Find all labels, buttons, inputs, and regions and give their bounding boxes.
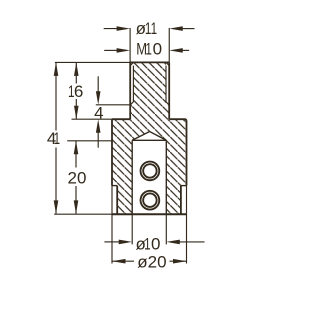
dimension M10 line right <box>179 49 189 51</box>
svg-text:4: 4 <box>94 104 103 123</box>
body left side <box>111 119 113 185</box>
dimension 16 line upper <box>75 62 77 83</box>
extension line: body top (16/4 bottom) <box>72 118 113 120</box>
dimension M10 arrow right <box>169 48 183 53</box>
spigot right side <box>180 186 182 215</box>
dimension text 16 <box>68 82 83 101</box>
extension line: body right vertical <box>186 186 188 264</box>
extension line: bottom <box>54 213 112 215</box>
dimension text ø10 <box>136 235 161 254</box>
section hatch: threaded stud core M10 <box>133 62 166 104</box>
dimension ø11 arrow right <box>169 26 183 31</box>
dimension 20 line upper <box>75 141 77 168</box>
dimension ø11 line left <box>104 28 120 30</box>
dimension 16 arrow up <box>74 62 79 76</box>
part outline: stud top face <box>130 61 169 63</box>
body top face left <box>112 118 130 120</box>
extension line: thread end shoulder <box>96 104 130 106</box>
svg-text:1: 1 <box>54 129 61 148</box>
dimension 20 line lower <box>75 186 77 214</box>
bore right edge <box>165 140 167 214</box>
extension line: stud right vertical <box>168 28 170 62</box>
dimension ø10 arrow right <box>166 240 180 245</box>
spigot left side <box>116 186 118 215</box>
body top face right with corner round <box>169 119 186 121</box>
dimension text ø11 <box>136 19 158 38</box>
svg-text:1: 1 <box>145 40 152 59</box>
thread minor line right <box>166 66 169 105</box>
step left <box>112 185 117 187</box>
dimension ø11 arrow left <box>117 26 131 31</box>
svg-text:20: 20 <box>68 169 87 188</box>
screw hole upper outer <box>141 162 160 181</box>
dimension 16 arrow down <box>74 106 79 120</box>
extension line: top face left <box>55 61 130 63</box>
svg-text:1: 1 <box>151 19 158 38</box>
dimension 41 arrow down <box>54 200 59 214</box>
dimension ø10 arrow left <box>119 240 133 245</box>
dimension 4 upper arrow (outside, pointing down) <box>97 76 99 93</box>
bore left edge <box>131 140 133 214</box>
extension line: stud left vertical <box>129 28 131 62</box>
extension line: bore right vertical <box>165 214 167 244</box>
section hatch: stud unthreaded neck <box>130 105 169 119</box>
stud right side <box>168 62 170 119</box>
dimension M10 line left <box>104 49 120 51</box>
drill cone base line <box>132 139 166 141</box>
dimension ø11 line right <box>179 28 195 30</box>
extension line: body left vertical <box>111 186 113 264</box>
dimension 41 line upper <box>55 62 57 130</box>
dimension M10 arrow left <box>117 48 131 53</box>
thread minor line left <box>130 66 133 105</box>
dimension ø20 arrow left (inside, pointing left) <box>112 259 126 264</box>
screw hole lower inner <box>143 193 157 207</box>
bottom face <box>112 213 187 215</box>
step right <box>181 185 187 187</box>
dimension 16 line lower <box>75 99 77 119</box>
extension line: bore depth <box>67 140 112 142</box>
screw hole upper inner <box>143 164 157 178</box>
dimension text M10 <box>136 40 162 59</box>
stud top chamfer left <box>130 62 133 65</box>
dimension 41 arrow up <box>54 62 59 76</box>
stud left side <box>129 62 131 119</box>
dimension 20 arrow down <box>74 200 79 214</box>
dimension ø20 arrow right (inside, pointing right) <box>173 259 187 264</box>
dimension text 41 <box>47 129 60 148</box>
section hatch: body and spigot walls <box>112 119 187 214</box>
stud top chamfer right <box>166 62 169 65</box>
drill cone <box>132 132 166 141</box>
dimension ø10 line right <box>176 241 205 243</box>
dimension ø20 line <box>112 260 134 262</box>
svg-text:0: 0 <box>153 40 162 59</box>
svg-text:0: 0 <box>151 235 160 254</box>
dimension 41 line lower <box>55 148 57 214</box>
dimension 20 arrow up <box>74 141 79 155</box>
dimension ø10 line left <box>104 241 120 243</box>
body right side <box>186 121 188 186</box>
svg-text:1: 1 <box>144 235 151 254</box>
extension line: bore left vertical <box>131 214 133 244</box>
svg-text:ø20: ø20 <box>137 252 166 271</box>
dimension 4 lower arrow (outside, pointing up) <box>97 131 99 148</box>
screw hole lower outer <box>141 191 160 210</box>
svg-text:6: 6 <box>74 82 83 101</box>
